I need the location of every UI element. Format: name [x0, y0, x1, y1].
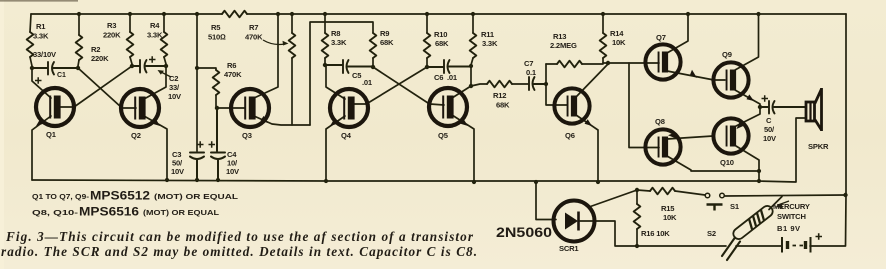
svg-text:510Ω: 510Ω — [208, 33, 226, 42]
mercury switch capsule — [731, 204, 775, 241]
node dot R8 C5 — [323, 63, 327, 67]
wire cross-coupling C6 node to Q4 base — [368, 67, 427, 103]
svg-text:68K: 68K — [380, 38, 394, 47]
node dot R11 C6 — [469, 64, 473, 68]
svg-text:10K: 10K — [663, 213, 677, 222]
transistor Q3 — [231, 89, 269, 127]
transistor Q2 — [121, 89, 159, 127]
wire R11 C6 to Q5 collector node — [470, 65, 472, 86]
wire Q7 emitter to Q9 base — [667, 71, 714, 80]
svg-text:Q1: Q1 — [46, 130, 57, 139]
svg-text:10K: 10K — [612, 38, 626, 47]
svg-text:0.1: 0.1 — [526, 68, 537, 77]
svg-text:Q9: Q9 — [722, 50, 732, 59]
svg-text:Q6: Q6 — [565, 131, 575, 140]
wire S1 to right vertical — [725, 195, 846, 196]
node D C2 R4 Q2-collector — [164, 64, 168, 68]
node dot R4 top — [162, 12, 166, 16]
capacitor C output — [760, 101, 806, 114]
svg-text:R14: R14 — [610, 29, 624, 38]
node dot output stage ground — [757, 179, 761, 183]
resistor R4 — [163, 14, 165, 32]
transistor Q6 — [554, 88, 589, 123]
svg-text:Fig. 3—This circuit can be mod: Fig. 3—This circuit can be modified to u… — [5, 229, 474, 244]
emitter arrow Q7 — [690, 70, 697, 78]
emitter arrow Q2 — [153, 119, 161, 126]
svg-text:Q2: Q2 — [131, 131, 141, 140]
capacitor C1 — [32, 62, 78, 75]
svg-text:Q5: Q5 — [438, 131, 449, 140]
wire SCR gate — [589, 190, 637, 207]
svg-text:.01: .01 — [362, 78, 373, 87]
svg-text:68K: 68K — [496, 101, 510, 110]
wire Q4 collector — [326, 65, 345, 99]
wire Q5 collector — [452, 86, 471, 98]
wire Q9 collector to rail — [735, 14, 759, 70]
svg-text:33/10V: 33/10V — [33, 50, 57, 59]
wire Q2 base inside — [121, 107, 136, 109]
node dot C7 Q6 base — [544, 82, 548, 86]
svg-text:MPS6516: MPS6516 — [79, 205, 139, 219]
emitter arrow Q9 — [747, 94, 755, 101]
capacitor C6 — [427, 60, 471, 73]
node dot Q2 emitter ground — [165, 178, 169, 182]
node dot R6 top junction — [195, 66, 199, 70]
arrow label mercury — [778, 201, 789, 205]
svg-text:R7: R7 — [249, 23, 258, 32]
wire C7 R13 to Q6 base — [546, 64, 556, 105]
svg-text:R11: R11 — [481, 30, 495, 39]
svg-text:33/: 33/ — [169, 83, 180, 92]
svg-text:B1 9V: B1 9V — [777, 224, 801, 233]
resistor R13 — [546, 63, 557, 65]
emitter arrow Q5 — [461, 119, 469, 126]
svg-text:3.3K: 3.3K — [147, 31, 163, 40]
svg-text:C6: C6 — [434, 73, 443, 82]
resistor R2 — [78, 14, 80, 35]
resistor R7 — [291, 14, 293, 33]
node dot Q3 base — [215, 106, 219, 110]
wire right vertical from rail to battery plus — [810, 14, 846, 246]
plus signs C3 C4 — [197, 141, 215, 147]
svg-text:R5: R5 — [211, 23, 221, 32]
wire Q6 base inside — [556, 104, 567, 106]
resistor R15 — [637, 190, 650, 191]
wire cross-coupling C1 node to Q2 base — [78, 68, 122, 108]
wire Q6 collector to R14 node — [576, 64, 608, 97]
resistor R10 — [426, 14, 428, 33]
svg-text:10V: 10V — [168, 92, 182, 101]
emitter arrow Q1 — [36, 119, 44, 126]
svg-text:2.2MEG: 2.2MEG — [550, 41, 577, 50]
node dot Q9 collector rail — [756, 12, 760, 16]
resistor R1 — [30, 14, 31, 32]
capacitor C5 — [325, 60, 373, 73]
node dot R8 top — [323, 12, 327, 16]
wire bottom ground rail — [32, 118, 806, 182]
svg-text:R2: R2 — [91, 45, 100, 54]
wire node down to Q8 base — [629, 63, 659, 148]
wire Q2 emitter to bottom rail — [144, 116, 167, 180]
transistor Q4 — [330, 89, 368, 127]
wire Q4 emitter to bottom rail — [326, 116, 345, 181]
node dot Q5 collector R12 — [469, 84, 473, 88]
wire Q7 collector to rail — [667, 14, 688, 53]
wire Q1 emitter to bottom rail — [32, 116, 51, 180]
node dot Q6 emitter ground — [596, 180, 600, 184]
SCR1 diode symbol — [565, 213, 578, 230]
resistor R3 — [129, 14, 131, 32]
resistor R11 — [472, 14, 474, 33]
resistor R9 — [370, 33, 377, 58]
svg-text:MPS6512: MPS6512 — [90, 189, 150, 203]
svg-text:(MOT) OR EQUAL: (MOT) OR EQUAL — [143, 210, 220, 217]
svg-text:Q8, Q10-: Q8, Q10- — [32, 210, 79, 217]
resistor R12 — [471, 84, 487, 86]
svg-text:SWITCH: SWITCH — [777, 212, 806, 221]
svg-text:220K: 220K — [91, 54, 109, 63]
plus sign C2 — [149, 56, 156, 62]
node dot Q4 emitter ground — [324, 179, 328, 183]
resistor R8 — [324, 14, 326, 33]
node C R3 C2 Q1-base — [130, 64, 134, 68]
svg-text:3.3K: 3.3K — [482, 39, 498, 48]
speaker SPKR — [806, 88, 822, 131]
svg-text:220K: 220K — [103, 31, 121, 40]
wire Q3 emitter node — [254, 116, 310, 125]
svg-text:3.3K: 3.3K — [331, 38, 347, 47]
svg-text:R15: R15 — [661, 204, 675, 213]
capacitor C3 electrolytic — [190, 153, 204, 181]
wire Q8 collector down — [667, 156, 759, 181]
svg-text:C1: C1 — [57, 72, 66, 79]
capacitor C2 — [132, 60, 166, 73]
node dot C4 ground — [216, 178, 220, 182]
parts list line 1 — [32, 189, 239, 203]
svg-text:10V: 10V — [763, 134, 777, 143]
wire Q6 emitter to bottom rail — [576, 115, 598, 182]
svg-text:(MOT) OR EQUAL: (MOT) OR EQUAL — [154, 194, 239, 201]
switch S1 plunger — [707, 205, 723, 211]
svg-text:470K: 470K — [245, 33, 263, 42]
svg-text:10V: 10V — [171, 167, 185, 176]
node dot Q6 collector R13 R14 — [606, 61, 610, 65]
mercury switch prongs S2 contacts — [722, 238, 740, 261]
emitter arrow Q6 — [585, 119, 593, 126]
svg-text:470K: 470K — [224, 70, 242, 79]
svg-text:SCR1: SCR1 — [559, 244, 579, 253]
node dot SCR anode rail — [534, 180, 538, 184]
svg-text:R3: R3 — [107, 21, 116, 30]
emitter arrow Q8 PNP — [668, 133, 676, 139]
transistor Q1 — [36, 88, 74, 126]
svg-text:Q3: Q3 — [242, 131, 252, 140]
node dot Q7 collector rail — [686, 12, 690, 16]
svg-text:3.3K: 3.3K — [33, 32, 49, 41]
svg-text:Q4: Q4 — [341, 131, 352, 140]
node dot Q8 Q10 collectors — [757, 169, 761, 173]
wire bracket Q3 emitter to R9 — [310, 22, 373, 125]
wire Q8 emitter to Q10 base — [667, 136, 713, 139]
plus sign C output — [762, 95, 769, 101]
wire Q4 base inside — [353, 103, 367, 105]
wire Q10 collector down — [736, 146, 759, 171]
node dot C3 rail — [195, 12, 199, 16]
wire battery to mercury gap — [736, 245, 781, 247]
plus sign battery — [816, 233, 823, 239]
node dot output Q9 Q10 C — [758, 105, 762, 109]
wire Q3 base — [217, 107, 245, 109]
node dot right vertical S1 wire — [843, 193, 847, 197]
svg-text:S2: S2 — [707, 229, 716, 238]
arrow label R7 — [263, 40, 285, 45]
parts list line 2 — [32, 205, 220, 219]
wire cross-coupling C2 node to Q1 base — [74, 66, 132, 107]
svg-text:SPKR: SPKR — [808, 142, 829, 151]
svg-text:R4: R4 — [150, 21, 160, 30]
svg-text:C7: C7 — [524, 59, 533, 68]
wire Q2 collector to C2 node — [144, 66, 166, 99]
arrow label C2 — [160, 72, 171, 78]
node dot R11 top — [471, 12, 475, 16]
svg-text:50/: 50/ — [764, 125, 775, 134]
transistor Q5 — [429, 88, 467, 126]
wire Q9 emitter to output node — [735, 90, 760, 107]
wire Q1 base inside — [59, 106, 74, 108]
svg-text:C2: C2 — [169, 74, 178, 83]
node dot R2 top — [77, 12, 81, 16]
emitter arrow Q3 — [261, 116, 269, 123]
transistor Q7 — [645, 44, 680, 79]
node dot Q3 collector rail — [276, 12, 280, 16]
node dot Q5 emitter ground — [472, 180, 476, 184]
svg-text:R1: R1 — [36, 22, 46, 31]
svg-text:R12: R12 — [493, 91, 506, 100]
node dot C5 R9 Q5-base — [371, 65, 375, 69]
wire Q5 base inside — [430, 104, 444, 105]
svg-text:Q1 TO Q7, Q9-: Q1 TO Q7, Q9- — [32, 194, 90, 201]
svg-text:Q10: Q10 — [720, 158, 734, 167]
wire Q10 emitter to output node — [736, 107, 760, 126]
scan edge top — [0, 0, 78, 2]
svg-text:2N5060: 2N5060 — [496, 224, 552, 240]
svg-text:C5: C5 — [352, 71, 362, 80]
svg-text:Q7: Q7 — [656, 33, 666, 42]
svg-text:Q8: Q8 — [655, 117, 665, 126]
plus sign C1 — [35, 77, 42, 83]
svg-text:C: C — [766, 116, 772, 125]
node dot R14 top — [601, 12, 605, 16]
node dot SCR gate R15 R16 — [635, 188, 639, 192]
wire mercury tip lead — [769, 197, 782, 210]
capacitor C7 — [529, 77, 546, 90]
node A Q1 collector C1 — [30, 66, 34, 70]
battery B1 — [782, 237, 811, 253]
wire Q3 collector to top rail — [254, 14, 278, 98]
svg-text:68K: 68K — [435, 39, 449, 48]
node dot C3 ground — [195, 178, 199, 182]
wire supply drop to C3 — [196, 14, 198, 151]
node dot R7 top — [290, 12, 294, 16]
wire Q1 collector — [32, 68, 51, 98]
switch S1 contacts — [705, 193, 710, 198]
SCR1 body — [554, 201, 595, 242]
svg-text:MERCURY: MERCURY — [773, 202, 810, 211]
transistor Q10 — [713, 118, 748, 153]
svg-text:R6: R6 — [227, 61, 236, 70]
node dot R3 top — [128, 12, 132, 16]
resistor R6 — [197, 68, 216, 70]
emitter arrow Q4 — [330, 119, 338, 126]
wire Q9 base inside — [712, 79, 725, 81]
wire top supply rail right segment — [247, 13, 846, 15]
wire cross-coupling C5 node to Q5 base — [373, 67, 430, 104]
wire SCR anode from rail — [536, 182, 556, 220]
svg-text:R9: R9 — [380, 29, 389, 38]
svg-text:R10: R10 — [434, 30, 447, 39]
svg-text:.01: .01 — [447, 73, 458, 82]
wire top supply rail left segment — [31, 13, 222, 15]
svg-text:S1: S1 — [730, 202, 740, 211]
node B C1 R2 Q2-base — [76, 66, 80, 70]
capacitor C4 electrolytic — [211, 108, 225, 180]
svg-text:radio. The SCR and S2 may be o: radio. The SCR and S2 may be omitted. De… — [1, 244, 477, 259]
resistor R5 in top rail — [222, 11, 247, 18]
wire node to Q7 base — [603, 62, 659, 64]
svg-text:R13: R13 — [553, 32, 566, 41]
emitter arrow Q10 PNP — [737, 122, 745, 129]
wire Q5 emitter to bottom rail — [452, 115, 474, 182]
svg-text:R16 10K: R16 10K — [641, 229, 670, 238]
wire SCR cathode to battery minus — [580, 221, 726, 246]
resistor R14 — [602, 14, 604, 33]
resistor R16 — [636, 190, 638, 204]
transistor Q9 — [713, 62, 748, 97]
node dot R16 battery minus — [635, 244, 639, 248]
node dot C6 R10 Q4-base — [425, 65, 429, 69]
svg-text:10V: 10V — [226, 167, 240, 176]
transistor Q8 — [645, 129, 680, 164]
svg-text:R8: R8 — [331, 29, 340, 38]
node dot R10 top — [425, 12, 429, 16]
